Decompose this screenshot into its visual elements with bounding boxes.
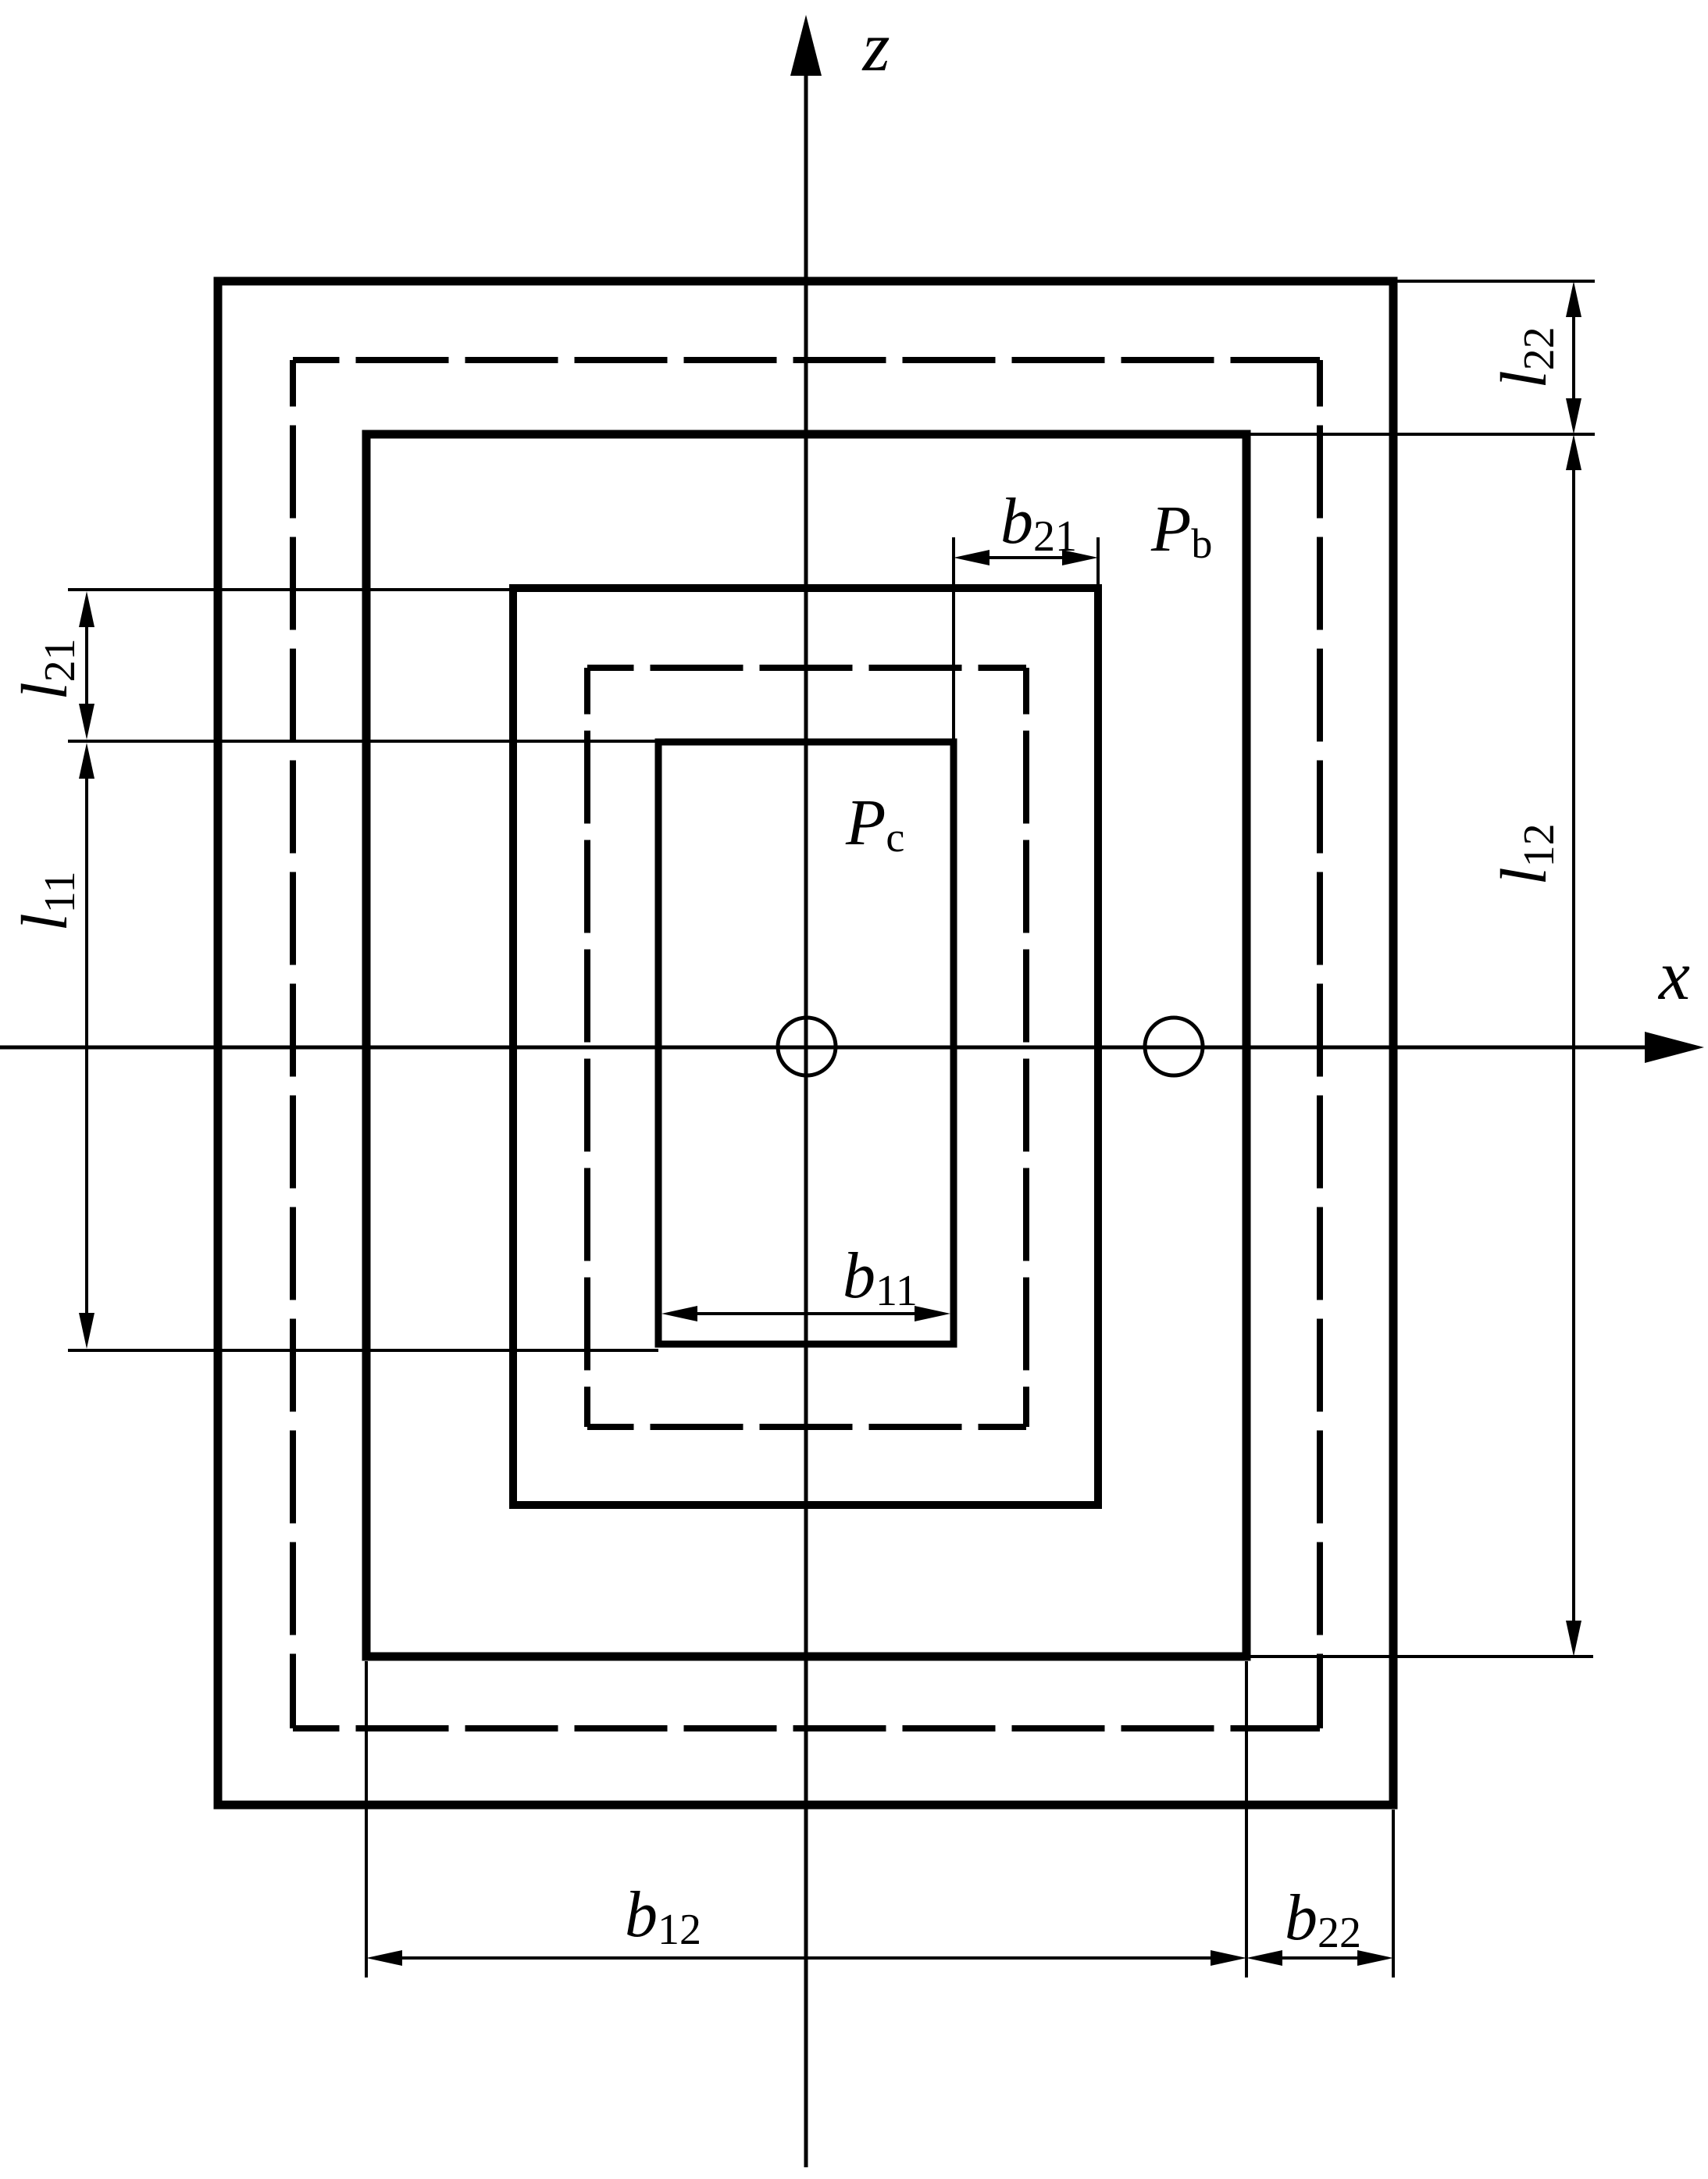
outer solid rectangle (218, 281, 1393, 1805)
dimension b21 (954, 550, 1098, 565)
svg-text:b21: b21 (1000, 485, 1077, 561)
z axis (790, 15, 822, 2167)
svg-text:b12: b12 (625, 1878, 701, 1954)
extension line b12 left (second rect left edge down) (365, 1661, 368, 1978)
svg-text:b11: b11 (843, 1239, 918, 1315)
extension line right mid (second rect top) (1246, 433, 1595, 436)
svg-text:l21: l21 (9, 638, 84, 700)
outer dashed rectangle (293, 360, 1320, 1728)
third solid rectangle (513, 588, 1098, 1505)
extension line b22 right (outer rect right edge down) (1392, 1810, 1395, 1978)
svg-text:z: z (861, 9, 890, 86)
svg-text:b22: b22 (1285, 1881, 1361, 1957)
dimension l22 (1566, 281, 1581, 434)
dimension l21 (79, 591, 94, 740)
inner dashed rectangle (587, 668, 1026, 1427)
extension line b12 right (second rect right edge down) (1245, 1661, 1248, 1978)
dimension b11 (661, 1306, 950, 1321)
extension line left top (third rect top) (68, 588, 513, 591)
extension line left bottom (innermost bottom) (68, 1349, 658, 1352)
dimension l12 (1566, 434, 1581, 1657)
extension line right bottom (second rect bottom) (1246, 1655, 1593, 1658)
svg-text:l22: l22 (1488, 326, 1564, 388)
svg-text:l11: l11 (9, 871, 84, 931)
extension line b21 left (innermost right edge up) (952, 537, 955, 742)
innermost solid rectangle (658, 742, 954, 1344)
dimension l11 (79, 743, 94, 1349)
svg-text:Pb: Pb (1150, 493, 1212, 567)
circle right (1145, 1018, 1203, 1075)
x axis (0, 1032, 1704, 1063)
svg-text:Pc: Pc (845, 786, 904, 861)
second solid rectangle (366, 434, 1246, 1657)
extension line b21 right (third rect right edge up) (1096, 537, 1100, 588)
extension line right top (outer rect top) (1393, 280, 1595, 283)
extension line left mid (innermost top) (68, 740, 658, 743)
circle at origin (778, 1018, 836, 1075)
svg-text:x: x (1657, 937, 1690, 1015)
svg-text:l12: l12 (1488, 823, 1564, 885)
dimension b22 (1246, 1950, 1393, 1966)
dimension b12 (366, 1950, 1246, 1966)
